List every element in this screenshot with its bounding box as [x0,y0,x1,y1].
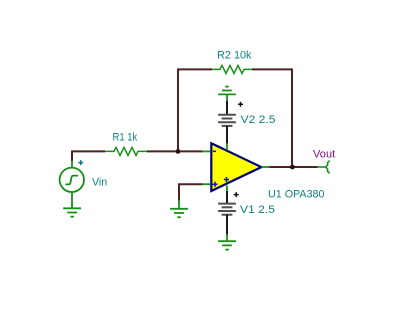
svg-text:V2 2.5: V2 2.5 [241,114,276,126]
source Vin [60,161,84,208]
resistor R1 [105,147,147,155]
ground flipped above V2 [218,87,236,102]
op-amp U1 [203,143,270,191]
wire Vin top vertical [71,151,73,161]
pin stub V- bottom [226,185,228,191]
ground below V1 [218,234,236,249]
svg-text:Vin: Vin [92,177,107,189]
svg-text:Vout: Vout [313,149,335,161]
wire feedback top horizontal [177,68,293,70]
ground below plus-input [170,200,188,217]
svg-text:V1 2.5: V1 2.5 [240,204,275,216]
junction output node [290,165,295,170]
svg-text:R2 10k: R2 10k [217,50,252,62]
pin stub plus input [203,183,211,185]
wire feedback right vertical [291,69,293,167]
wire main input horizontal [71,150,203,152]
junction input node [176,149,181,154]
svg-text:U1 OPA380: U1 OPA380 [268,189,325,201]
pin stub minus input [203,150,211,152]
source plus marker [78,160,83,165]
marker plus supply [224,177,229,182]
battery V2 [218,101,243,144]
svg-text:R1 1k: R1 1k [113,132,138,144]
battery V1 [218,191,239,235]
wire plus-input horizontal [178,183,203,185]
pin stub V+ top [226,144,228,151]
pin stub output [262,166,270,168]
marker plus input [212,182,217,187]
wire feedback left vertical [177,69,179,151]
marker minus input [213,150,216,152]
ground below Vin [63,208,81,216]
resistor R2 [212,65,252,73]
terminal Vout pin [318,161,330,174]
wire plus-input ground vertical [178,184,180,200]
wire output horizontal [269,166,317,168]
